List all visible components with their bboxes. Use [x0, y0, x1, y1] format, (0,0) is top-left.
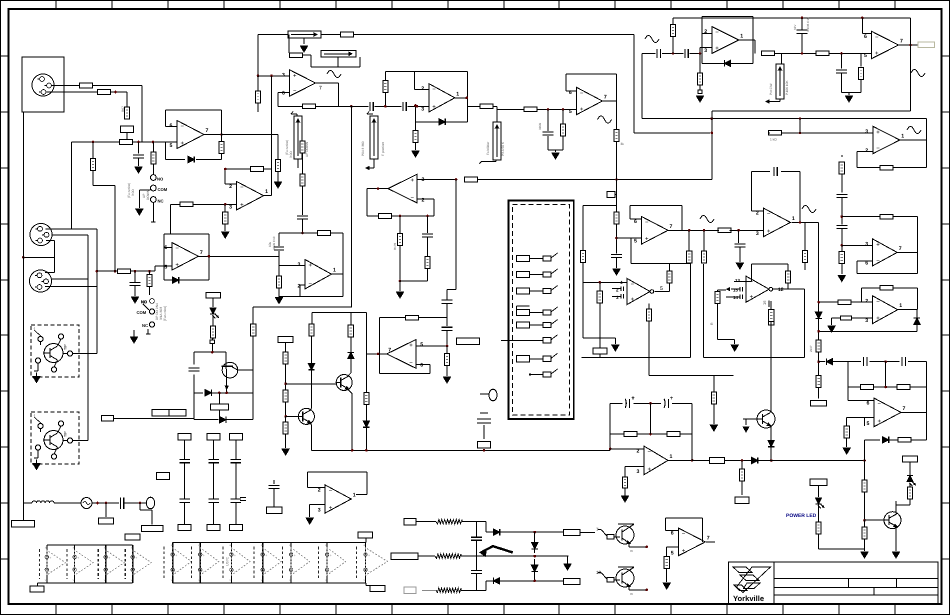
driver feed rail	[312, 311, 367, 313]
wire R41 to pot	[775, 52, 782, 54]
wire U1 pin6 stub	[166, 126, 178, 128]
big arrow	[483, 546, 513, 552]
svg-text:+: +	[875, 51, 879, 57]
sine mark	[598, 116, 612, 123]
resistor R10	[290, 53, 303, 58]
wire branch C7	[427, 216, 429, 233]
diode D5	[815, 312, 821, 318]
U16 feedback top	[842, 216, 880, 218]
wire bus up leg	[609, 403, 611, 450]
resistor R46	[880, 214, 893, 219]
op-amp U11 mixer	[388, 174, 417, 203]
comparator cell	[222, 547, 224, 580]
resistor R58	[907, 487, 912, 499]
Q2 pin circles	[38, 423, 43, 428]
svg-text:−: −	[234, 570, 236, 574]
svg-text:+: +	[432, 105, 436, 111]
fuse box F1	[710, 457, 725, 463]
wire node 361	[818, 352, 820, 376]
capacitor C2	[369, 102, 371, 111]
svg-text:+: +	[411, 178, 415, 184]
svg-text:3: 3	[865, 129, 868, 135]
capacitor C18	[836, 224, 847, 226]
svg-text:2: 2	[318, 488, 321, 494]
capacitor C17	[836, 193, 847, 195]
resistor R67	[124, 107, 129, 119]
wire jog ground	[718, 339, 735, 341]
svg-text:F pontiom: F pontiom	[381, 141, 385, 156]
wire U8 feedback to upper stage	[170, 204, 172, 234]
wire Q3 emitter	[348, 389, 353, 393]
op-amp U3A	[429, 84, 455, 112]
sine mark	[911, 70, 925, 77]
svg-text:+: +	[265, 554, 267, 558]
wire U17 output	[898, 309, 918, 311]
svg-text:−: −	[175, 570, 177, 574]
capacitor C5	[297, 215, 308, 217]
ground	[846, 96, 853, 102]
sine mark	[645, 36, 659, 43]
svg-text:6: 6	[634, 219, 637, 225]
svg-text:−: −	[330, 570, 332, 574]
ground	[412, 151, 419, 157]
Yorkville logo	[733, 567, 752, 573]
wire coil to lamp	[54, 502, 81, 504]
link block outer box	[509, 200, 574, 419]
wire U12 pin6 stub	[630, 218, 642, 220]
svg-text:3: 3	[865, 242, 868, 248]
svg-text:3: 3	[229, 204, 232, 210]
ground	[612, 345, 619, 351]
link row 6	[501, 339, 543, 341]
U7 feedback loop	[925, 140, 927, 168]
slide pot P5	[493, 122, 501, 160]
label box	[229, 525, 242, 531]
resistor R8	[341, 32, 354, 37]
op-amp U13 VCA	[627, 279, 650, 305]
diode D3	[172, 277, 178, 283]
wire U19 pin3	[625, 466, 644, 468]
svg-text:+: +	[293, 73, 297, 79]
svg-text:−: −	[329, 489, 333, 495]
svg-text:3: 3	[318, 508, 321, 514]
wire U22 pin5	[667, 546, 679, 548]
wire U2 pin6	[278, 92, 290, 94]
component box	[478, 441, 491, 448]
wire R61 node	[616, 224, 618, 254]
title block logo cell	[773, 562, 775, 604]
op-amp U2A	[290, 70, 316, 96]
svg-text:6: 6	[867, 401, 870, 407]
svg-text:+: +	[876, 316, 880, 322]
svg-text:+: +	[77, 556, 79, 560]
pad	[698, 90, 702, 93]
ground	[622, 496, 629, 502]
supply rail box	[278, 337, 293, 343]
box left leg	[582, 205, 584, 250]
svg-text:1 kΩ: 1 kΩ	[770, 138, 777, 142]
ground	[275, 182, 282, 188]
capacitor C1	[138, 142, 140, 154]
wire R2 node down	[110, 91, 127, 93]
svg-text:−: −	[767, 212, 771, 218]
resistor R61	[614, 212, 619, 224]
slide pot P2	[321, 51, 356, 58]
wire C2 to C3	[375, 105, 402, 107]
resistor R42	[816, 51, 829, 56]
wire down to Q8	[864, 461, 866, 481]
svg-text:3k: 3k	[621, 142, 625, 146]
ground	[33, 464, 40, 470]
resistor R64	[668, 264, 670, 272]
module right edge	[252, 336, 254, 420]
capacitor C22	[773, 167, 775, 176]
svg-text:6: 6	[420, 363, 423, 369]
wire U17 pin3	[832, 317, 841, 319]
component box	[266, 507, 282, 514]
wire C17 to node	[841, 198, 843, 225]
wire U18 pin5	[416, 345, 447, 347]
wire long bus down	[350, 106, 352, 306]
svg-text:+: +	[750, 295, 754, 301]
diode D7	[751, 457, 757, 463]
connector pad mixer	[493, 151, 499, 157]
connector J3 XLR input C	[30, 270, 52, 292]
transistor Q4	[298, 408, 314, 424]
cap marks pins	[739, 287, 741, 292]
resistor R86	[804, 222, 806, 251]
svg-text:15: 15	[733, 288, 738, 293]
svg-text:DOWN: DOWN	[146, 189, 150, 200]
switch S1 contacts	[151, 175, 157, 181]
comparator cell	[191, 547, 193, 580]
svg-text:m: m	[630, 549, 633, 553]
wire U14 output	[792, 221, 819, 223]
resistor R20	[300, 174, 305, 186]
resistor R43	[860, 53, 862, 66]
wire U1 pin5 stub	[170, 141, 178, 143]
resistor R57	[864, 520, 866, 527]
label box	[207, 525, 220, 531]
svg-text:16: 16	[762, 300, 767, 305]
wire relay rail	[113, 417, 194, 419]
svg-text:7: 7	[899, 246, 902, 252]
wire box bottom jog	[583, 337, 615, 339]
wire output exit	[468, 105, 480, 107]
U20 feedback caps	[833, 361, 861, 363]
link row 5	[517, 322, 530, 328]
wire to Q3 base	[286, 383, 337, 385]
svg-text:+: +	[309, 263, 313, 269]
wire Q8 emitter down	[895, 527, 897, 551]
resistor R25	[399, 216, 401, 234]
resistor R76	[348, 325, 353, 337]
wire Q3 collector	[348, 373, 351, 376]
svg-text:7: 7	[670, 224, 673, 230]
svg-text:−: −	[876, 299, 880, 305]
svg-text:R178: R178	[393, 242, 397, 250]
component box	[139, 503, 141, 510]
fuse box F3	[563, 578, 580, 584]
op-amp U8B	[172, 243, 199, 271]
resistor R6	[275, 160, 280, 172]
op-amp U9A	[237, 182, 264, 210]
wire TIP feed legs	[87, 279, 89, 440]
U10 box right edge	[342, 233, 344, 296]
lamp LA1	[81, 498, 92, 509]
res pair row	[610, 433, 624, 435]
svg-text:−: −	[181, 124, 185, 130]
wire U15 output	[772, 288, 788, 290]
ground	[306, 518, 313, 524]
ground plate box	[22, 503, 24, 520]
rectifier vertical	[476, 522, 478, 537]
wire pot frame up	[288, 35, 290, 53]
svg-text:+: +	[631, 297, 635, 303]
svg-text:3 0Ω: 3 0Ω	[289, 151, 293, 158]
ground	[132, 297, 139, 303]
resistor R79	[667, 432, 680, 437]
wire box down	[285, 343, 287, 353]
capacitor C28	[273, 480, 275, 484]
svg-text:+: +	[409, 343, 413, 349]
wire R25 to ground	[399, 246, 401, 282]
svg-text:1: 1	[901, 134, 904, 140]
svg-text:+: +	[49, 556, 51, 560]
wire COM to ground	[139, 189, 150, 191]
resistor R55	[889, 439, 898, 441]
wire XLR1 pin2 to R1	[52, 85, 81, 87]
svg-text:1: 1	[792, 216, 795, 222]
wire to Q4 base	[286, 415, 299, 417]
component box	[105, 503, 107, 517]
link row 7	[517, 356, 530, 362]
equal mark	[240, 497, 246, 499]
svg-text:+: +	[329, 506, 333, 512]
wire Q4 collector emitter	[310, 409, 312, 411]
svg-text:+: +	[878, 419, 882, 425]
test point TP1	[607, 192, 615, 198]
svg-text:NO: NO	[141, 300, 147, 305]
resistor R83	[699, 53, 701, 73]
svg-text:−: −	[294, 570, 296, 574]
svg-text:+: +	[715, 46, 719, 52]
resistor R38	[614, 130, 619, 142]
svg-text:5: 5	[164, 265, 167, 271]
power transistor module Q2 dashed box	[31, 412, 79, 464]
diode D15	[534, 532, 536, 542]
svg-text:NO: NO	[157, 177, 164, 182]
op-amp U20	[874, 398, 901, 427]
svg-text:−: −	[631, 282, 635, 288]
bus from U14 down	[818, 222, 820, 312]
diode D16	[534, 559, 536, 565]
link row 3	[517, 288, 530, 294]
wire into U13 out	[655, 291, 670, 293]
comparator group 2 bottom rail	[173, 582, 366, 584]
op-amp U15 VCA	[746, 276, 769, 302]
svg-text:+: +	[108, 556, 110, 560]
wire R30 to pot P5	[493, 105, 497, 107]
resistor R75	[309, 324, 314, 336]
sine mark	[802, 206, 816, 213]
op-amp U14	[763, 208, 790, 237]
wire XLR2 pin1	[46, 228, 97, 230]
slide pot P1 gain	[288, 31, 321, 38]
transistor Q5	[757, 410, 775, 428]
resistor R51	[861, 385, 874, 390]
supply rail wire	[253, 306, 352, 308]
diode D2	[439, 119, 445, 125]
svg-text:3: 3	[637, 469, 640, 475]
capacitor C7	[422, 233, 433, 235]
ground	[828, 326, 835, 332]
resistor R11	[303, 104, 316, 109]
resistor R18	[224, 204, 226, 212]
svg-text:Yorkville: Yorkville	[733, 594, 764, 603]
svg-text:33Ωk C10: 33Ωk C10	[272, 236, 276, 250]
op-amp U21	[325, 485, 351, 513]
svg-text:−: −	[409, 361, 413, 367]
resistor R21	[318, 231, 331, 236]
comparator cell	[318, 547, 320, 580]
wire channel bus vertical	[633, 35, 635, 133]
op-amp U1A	[177, 121, 204, 149]
comparator group 1 top rail	[47, 544, 133, 546]
capacitor C31	[193, 352, 195, 364]
bottom rail	[581, 357, 690, 359]
capacitor	[231, 498, 242, 500]
diode D9	[308, 363, 314, 369]
slide pot P3 pan	[294, 116, 302, 159]
svg-text:13: 13	[735, 278, 740, 283]
wire U1 output	[204, 134, 222, 136]
svg-text:+: +	[135, 556, 137, 560]
svg-text:−: −	[432, 87, 436, 93]
wire U6 output	[899, 44, 918, 46]
diode D19	[219, 417, 225, 423]
svg-text:1: 1	[670, 454, 673, 460]
resistor R26	[427, 238, 429, 257]
resistor R44	[880, 165, 893, 170]
resistor R12	[385, 70, 467, 72]
transistor Q9	[222, 362, 238, 378]
wire pot wiper to R31	[497, 108, 524, 110]
wire XLR3 pin1	[45, 271, 55, 273]
resistor R27	[406, 315, 419, 320]
diode D21	[914, 318, 920, 324]
op-amp U7	[873, 126, 900, 153]
capacitor C21	[738, 230, 740, 243]
diode D17	[768, 440, 774, 446]
wire U11 pin3 bus	[417, 179, 456, 181]
transistor Q8	[884, 512, 901, 529]
wire U6 out down	[910, 18, 912, 45]
svg-text:−: −	[135, 570, 137, 574]
U1 feedback bottom wire	[165, 142, 167, 160]
input bus node wires	[72, 141, 121, 143]
resistor R22	[278, 266, 280, 277]
resistor R47	[841, 245, 843, 251]
resistor R66	[599, 282, 601, 291]
svg-text:[Fun ction]: [Fun ction]	[163, 306, 167, 321]
wire caps row	[642, 52, 656, 54]
wire join ground	[842, 91, 862, 93]
wire U11 pin2 leg	[433, 199, 435, 216]
bottom box	[370, 586, 385, 592]
svg-text:P3 A 50 K: P3 A 50 K	[501, 141, 505, 156]
op-amp U16	[873, 239, 898, 266]
diode D1	[188, 156, 194, 162]
svg-text:2: 2	[229, 184, 232, 190]
wire U8 output	[198, 255, 279, 257]
ground	[131, 337, 138, 343]
svg-text:+: +	[175, 554, 177, 558]
resistor R60	[718, 228, 731, 233]
wire to U19 pin2	[609, 434, 611, 449]
wire U10 output	[332, 273, 344, 275]
capacitor C23	[611, 253, 622, 255]
resistor R41	[762, 51, 775, 56]
wire signal leg down	[96, 229, 98, 287]
svg-text:5: 5	[420, 342, 423, 348]
U16 lower loop	[857, 260, 873, 262]
resistor R14	[92, 141, 95, 144]
resistor R53	[844, 426, 849, 438]
U4 feedback loop	[566, 73, 617, 75]
electrolytic C24	[610, 402, 622, 404]
svg-text:+: +	[876, 130, 880, 136]
ground	[613, 269, 620, 275]
wire output bus	[724, 460, 751, 462]
resistor R74	[285, 416, 287, 422]
resistor R49	[838, 300, 851, 305]
ground	[736, 263, 743, 269]
svg-text:U5?C: U5?C	[226, 556, 230, 566]
module top edge	[194, 351, 226, 353]
wire U9 pin2	[225, 183, 236, 185]
wire D9 to Q4	[311, 370, 313, 409]
wire U2 pin3	[258, 75, 290, 77]
svg-text:1: 1	[333, 268, 336, 274]
supply box	[903, 456, 918, 462]
svg-text:63V: 63V	[793, 25, 797, 30]
wire main bus A	[258, 34, 288, 36]
U2 feedback loop	[337, 83, 339, 106]
wire R15 to U8 pin5	[130, 270, 155, 272]
wire lamp to cap	[92, 502, 119, 504]
led indicator	[212, 298, 214, 307]
diode D4	[724, 60, 730, 66]
U15 feedback top	[752, 263, 788, 265]
connector pad	[210, 340, 214, 344]
border ruler ticks	[55, 1, 57, 10]
connector pad	[769, 320, 775, 326]
wire cap to jack	[124, 502, 146, 504]
U15 bottom rail	[704, 357, 805, 359]
U10 box bottom	[279, 295, 343, 297]
Q2 wires	[58, 426, 62, 433]
resistor R31	[524, 107, 537, 112]
led LED1 power	[818, 485, 820, 497]
wire Q5 base arrow	[743, 418, 757, 420]
ground	[33, 377, 40, 383]
resistor R17	[171, 203, 180, 205]
op-amp U10B	[305, 260, 332, 289]
row1 rectifier	[477, 521, 486, 523]
svg-text:3: 3	[298, 262, 301, 268]
wire C24 C25 node	[633, 402, 661, 404]
